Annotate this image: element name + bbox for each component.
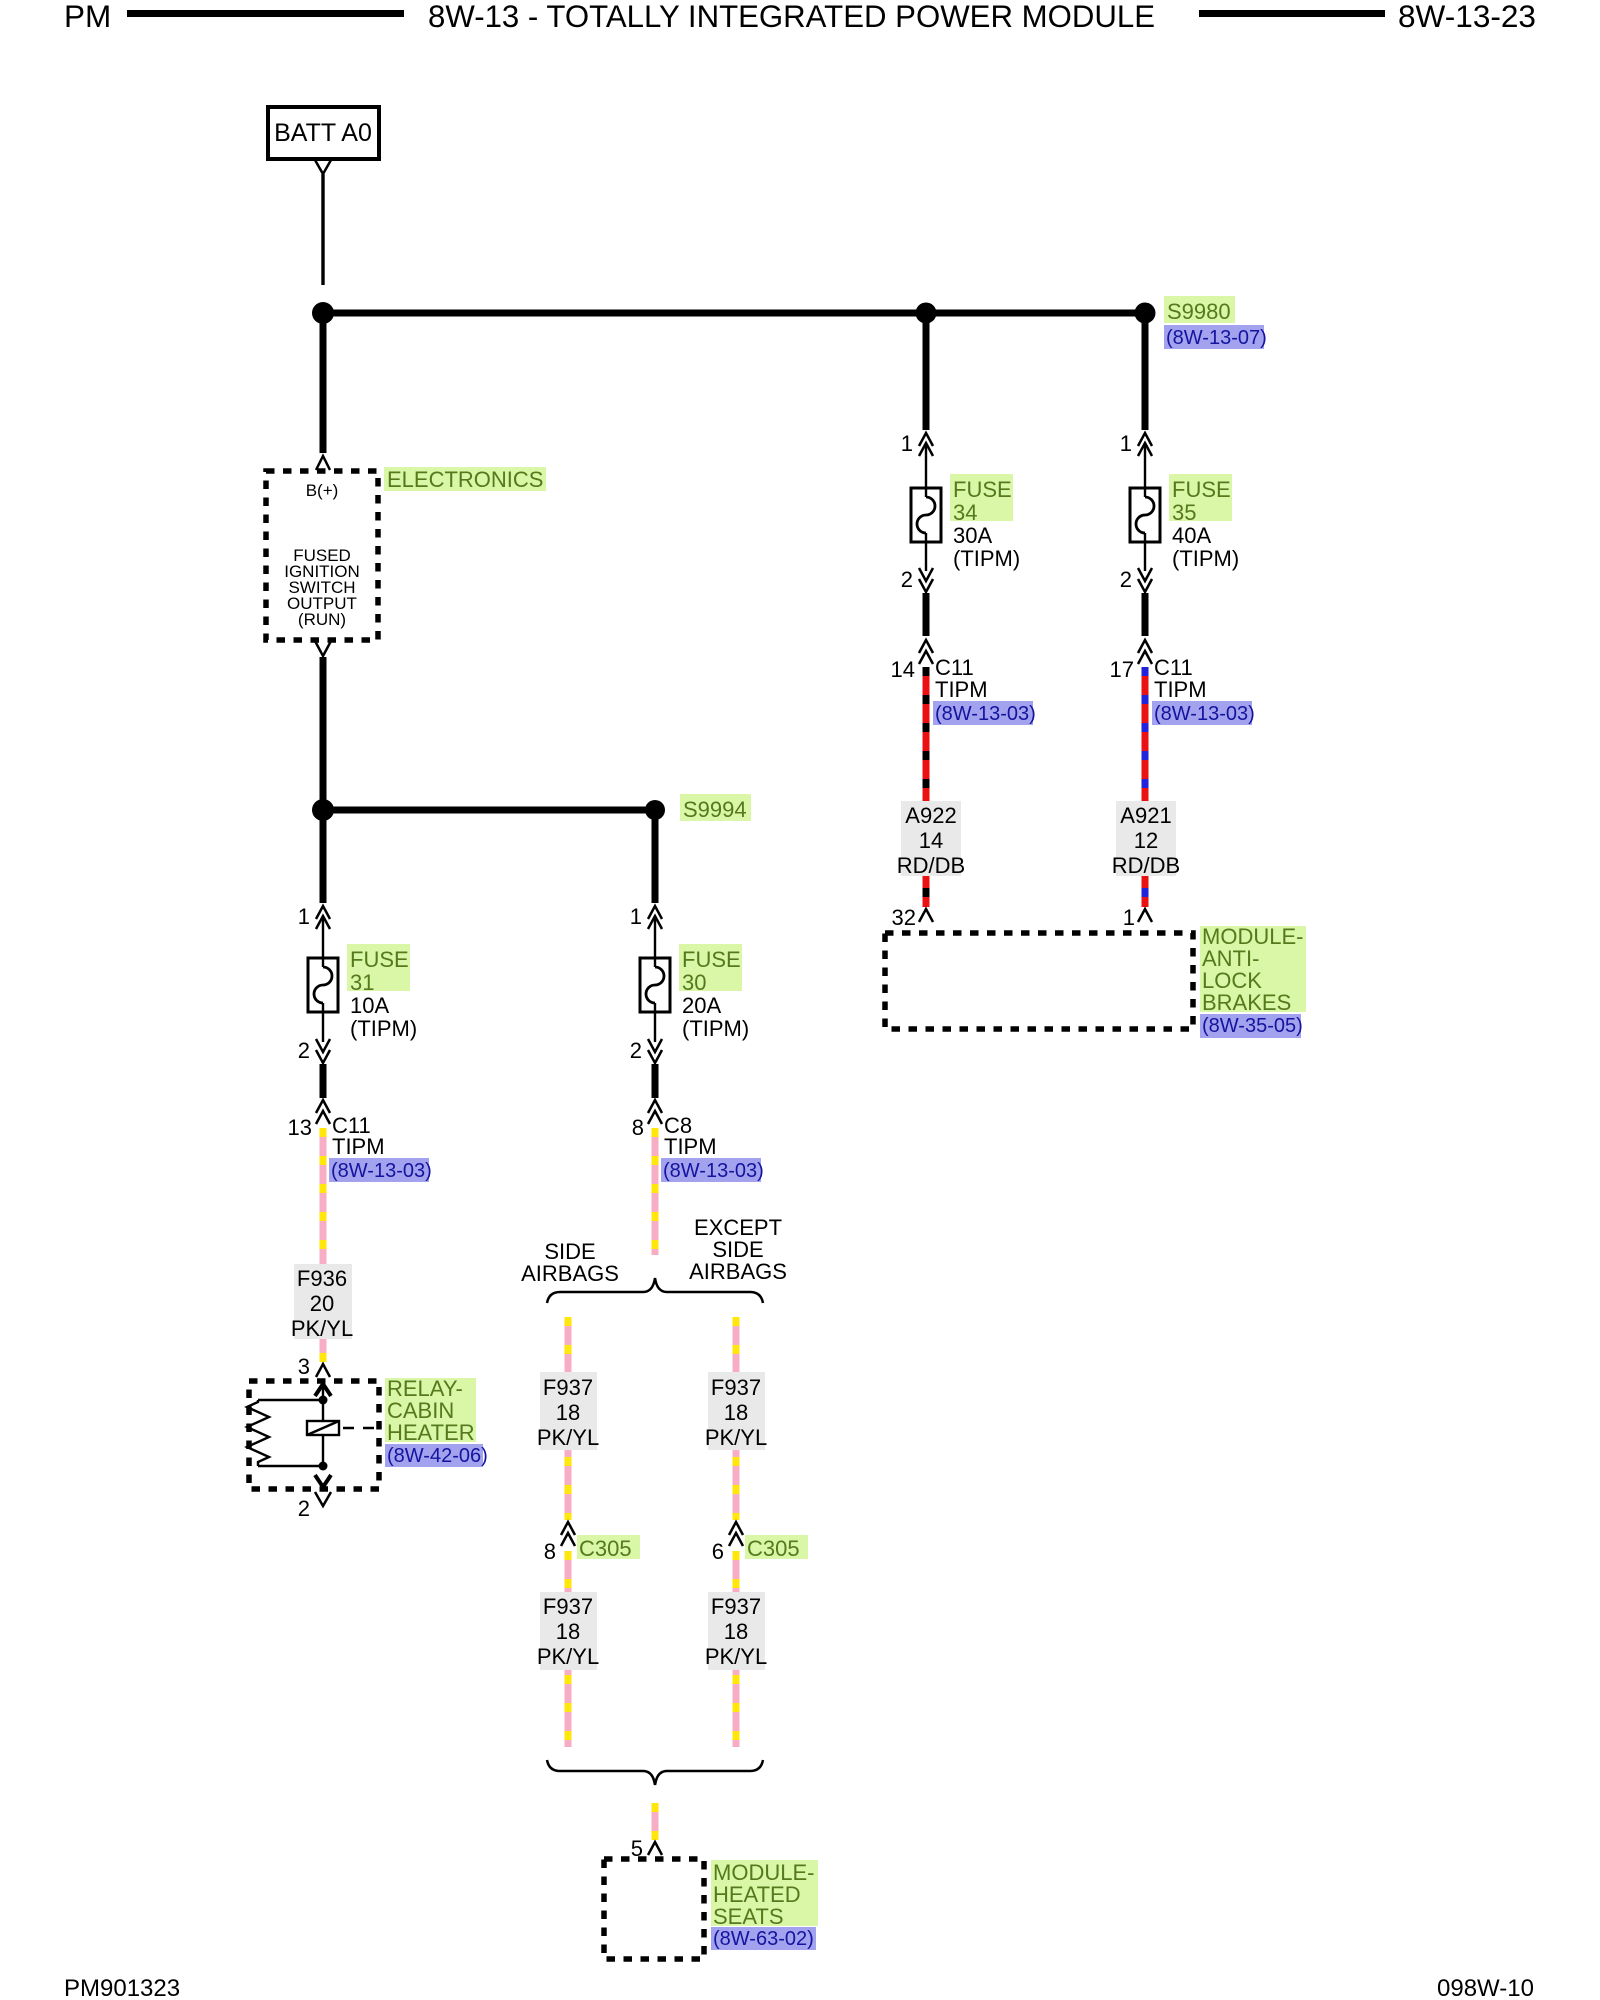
fuse F34 [911,488,941,542]
svg-text:PK/YL: PK/YL [705,1425,767,1450]
junction relay bottom [319,1462,328,1471]
reference (8W-35-05) [1200,1014,1301,1038]
arrow into fused ignition switch output [316,456,330,470]
svg-text:PK/YL: PK/YL [291,1316,353,1341]
svg-text:ELECTRONICS: ELECTRONICS [387,467,543,492]
svg-text:PK/YL: PK/YL [537,1644,599,1669]
wire A922 red/black [923,667,930,801]
svg-text:TIPM: TIPM [664,1134,717,1159]
svg-text:PK/YL: PK/YL [537,1425,599,1450]
svg-text:30: 30 [682,970,706,995]
wire S9980 to fuse 35 [1142,317,1149,430]
svg-text:FUSE: FUSE [682,947,741,972]
wire lower left to merge [565,1670,572,1747]
reference (8W-13-03) [661,1158,761,1182]
wire out of fuse 30 [654,1003,656,1042]
svg-text:8W-13-23: 8W-13-23 [1398,0,1536,34]
svg-text:12: 12 [1134,828,1158,853]
relay internal arrow out [315,1475,331,1487]
header rule left [127,10,404,17]
wire to resistor [258,1399,323,1401]
value label F937 18 PK/YL side airbags [537,1372,599,1450]
svg-text:PM: PM [64,0,111,34]
svg-text:F936: F936 [297,1266,347,1291]
node S9994 bus wire [323,807,656,814]
wire A921 red/dark blue [1142,667,1149,801]
svg-text:8: 8 [544,1539,556,1564]
svg-text:F937: F937 [711,1375,761,1400]
svg-text:3: 3 [298,1354,310,1379]
svg-text:BRAKES: BRAKES [1202,990,1291,1015]
junction S9994 right [645,800,665,820]
arrow out of BATT A0 [315,160,331,174]
wire into fuse 30 [654,916,656,967]
svg-text:1: 1 [298,904,310,929]
svg-text:(8W-13-03): (8W-13-03) [1154,703,1255,725]
wire out of fuse 34 [925,533,927,571]
fuse F31 [308,958,338,1012]
svg-text:FUSE: FUSE [1172,477,1231,502]
node S9980 bus wire [323,310,1146,317]
svg-text:(8W-35-05): (8W-35-05) [1202,1015,1303,1037]
wire fuse 31 to connector C11 [320,1064,327,1098]
resistor relay coil suppression [247,1400,269,1466]
svg-text:40A: 40A [1172,523,1211,548]
value label FUSE 30 [679,944,742,991]
svg-text:C305: C305 [579,1536,632,1561]
svg-text:18: 18 [556,1619,580,1644]
brace split [547,1278,763,1303]
svg-text:BATT A0: BATT A0 [274,119,372,147]
svg-text:(TIPM): (TIPM) [1172,546,1239,571]
svg-text:14: 14 [919,828,943,853]
reference (8W-13-07) [1164,325,1264,349]
svg-text:FUSE: FUSE [350,947,409,972]
reference (8W-42-06) [385,1444,483,1467]
junction at battery drop [312,302,334,324]
wire F936 to relay [320,1339,327,1362]
svg-text:10A: 10A [350,993,389,1018]
svg-text:(8W-42-06): (8W-42-06) [387,1445,488,1467]
svg-text:2: 2 [901,567,913,592]
value label F937 18 PK/YL lower right [705,1592,767,1670]
relay coil K [307,1421,339,1435]
fuse F35 [1130,488,1160,542]
svg-text:6: 6 [712,1539,724,1564]
wire fuse 30 to connector C8 [652,1064,659,1098]
wire battery feed [321,174,324,285]
fuse F30 [640,958,670,1012]
reference (8W-13-03) [329,1158,429,1182]
junction relay top [319,1396,328,1405]
wire fuse 34 to connector C11 [923,593,930,636]
arrow out of fused ignition switch output [315,641,331,656]
svg-text:2: 2 [630,1038,642,1063]
svg-text:S9994: S9994 [683,797,747,822]
svg-text:2: 2 [1120,567,1132,592]
svg-text:32: 32 [892,905,916,930]
relay internal arrow in [315,1384,331,1396]
svg-text:AIRBAGS: AIRBAGS [689,1259,787,1284]
svg-text:2: 2 [298,1496,310,1521]
wire bus to ignition switch output [320,317,327,453]
wire C305 to F937 lower left [565,1551,572,1592]
svg-text:SEATS: SEATS [713,1904,784,1929]
value label FUSE 34 [950,474,1013,521]
module-anti-lock brakes box [885,933,1193,1029]
svg-text:F937: F937 [543,1594,593,1619]
svg-text:(8W-13-03): (8W-13-03) [663,1160,764,1182]
svg-text:A921: A921 [1120,803,1171,828]
svg-text:2: 2 [298,1038,310,1063]
label MODULE-HEATED SEATS [711,1860,818,1926]
value label A922 14 RD/DB [897,801,965,878]
wire ignition switch output to S9994 [320,657,327,807]
value label FUSE 35 [1169,474,1232,521]
svg-text:8W-13 - TOTALLY INTEGRATED POW: 8W-13 - TOTALLY INTEGRATED POWER MODULE [428,0,1155,34]
reference (8W-13-03) [1152,701,1252,725]
svg-text:34: 34 [953,500,977,525]
svg-text:35: 35 [1172,500,1196,525]
svg-text:AIRBAGS: AIRBAGS [521,1261,619,1286]
svg-text:PM901323: PM901323 [64,1975,180,2000]
value label A921 12 RD/DB [1112,801,1180,878]
svg-text:(8W-13-03): (8W-13-03) [935,703,1036,725]
svg-text:TIPM: TIPM [332,1134,385,1159]
svg-text:(TIPM): (TIPM) [350,1016,417,1041]
svg-text:31: 31 [350,970,374,995]
svg-text:(8W-63-02): (8W-63-02) [713,1928,814,1950]
svg-text:(8W-13-03): (8W-13-03) [331,1160,432,1182]
wire A922 to anti-lock brakes [923,876,930,907]
svg-text:30A: 30A [953,523,992,548]
wire F936 pink/yellow [320,1128,327,1264]
svg-text:(TIPM): (TIPM) [953,546,1020,571]
pin 2 of relay [315,1492,331,1506]
svg-text:RD/DB: RD/DB [1112,853,1180,878]
svg-text:18: 18 [556,1400,580,1425]
wire fuse 35 to connector C11 [1142,593,1149,636]
label MODULE-ANTI-LOCK BRAKES [1200,926,1306,1012]
svg-text:098W-10: 098W-10 [1437,1975,1534,2000]
wire S9994 to fuse 30 [652,814,659,903]
svg-text:1: 1 [630,904,642,929]
svg-text:20A: 20A [682,993,721,1018]
svg-text:(TIPM): (TIPM) [682,1016,749,1041]
wire resistor bottom [258,1465,323,1467]
reference (8W-13-03) [933,701,1033,725]
svg-text:8: 8 [632,1115,644,1140]
fused ignition switch output (run) box [266,471,378,640]
wire S9980 to fuse 34 [923,317,930,430]
wire S9994 to fuse 31 [320,814,327,903]
svg-text:PK/YL: PK/YL [705,1644,767,1669]
wire A921 to anti-lock brakes [1142,876,1149,907]
value label F937 18 PK/YL except side airbags [705,1372,767,1450]
reference (8W-63-02) [711,1927,816,1950]
svg-text:18: 18 [724,1619,748,1644]
svg-text:RD/DB: RD/DB [897,853,965,878]
brace merge [547,1760,763,1785]
value label FUSE 31 [347,944,410,991]
svg-text:F937: F937 [543,1375,593,1400]
wire into fuse 35 [1144,443,1146,497]
svg-text:(8W-13-07): (8W-13-07) [1166,327,1267,349]
relay-cabin heater box [249,1381,379,1489]
wire out of fuse 35 [1144,533,1146,571]
wire into fuse 31 [322,916,324,967]
header rule right [1199,10,1385,17]
wire F937 to C305 pin 6 [733,1450,740,1520]
junction at fuse 34 drop [916,303,937,324]
svg-text:18: 18 [724,1400,748,1425]
svg-text:HEATER: HEATER [387,1420,475,1445]
wire F937 except side airbags upper [733,1317,740,1372]
wire F937 to C305 pin 8 [565,1450,572,1520]
node label S9994 [680,794,751,821]
svg-text:17: 17 [1110,657,1134,682]
value label F936 20 PK/YL [291,1264,353,1341]
dashed actuator link [343,1427,378,1429]
junction at fuse 35 drop [1135,303,1156,324]
wire C305 to F937 lower right [733,1551,740,1592]
wire merge to heated seats [652,1803,659,1840]
svg-text:1: 1 [1123,905,1135,930]
svg-text:F937: F937 [711,1594,761,1619]
wire F937 side airbags upper [565,1317,572,1372]
svg-text:TIPM: TIPM [1154,677,1207,702]
wire out of fuse 31 [322,1003,324,1042]
svg-text:B(+): B(+) [306,481,339,500]
label ELECTRONICS [384,467,546,491]
value label F937 18 PK/YL lower left [537,1592,599,1670]
svg-text:14: 14 [891,657,915,682]
svg-text:(RUN): (RUN) [298,610,346,629]
wire F937 pink/yellow trunk [652,1128,659,1255]
wire lower right to merge [733,1670,740,1747]
label RELAY-CABIN HEATER [385,1378,476,1442]
svg-text:20: 20 [310,1291,334,1316]
relay internal wire [322,1384,324,1466]
node label S9980 [1164,296,1235,323]
svg-text:13: 13 [288,1115,312,1140]
module-heated seats box [604,1859,704,1959]
svg-text:TIPM: TIPM [935,677,988,702]
svg-text:FUSE: FUSE [953,477,1012,502]
svg-text:1: 1 [901,431,913,456]
svg-text:S9980: S9980 [1167,299,1231,324]
svg-text:A922: A922 [905,803,956,828]
battery BATT A0 box [268,107,379,159]
svg-text:C305: C305 [747,1536,800,1561]
wire into fuse 34 [925,443,927,497]
junction S9994 left [312,799,334,821]
svg-text:1: 1 [1120,431,1132,456]
